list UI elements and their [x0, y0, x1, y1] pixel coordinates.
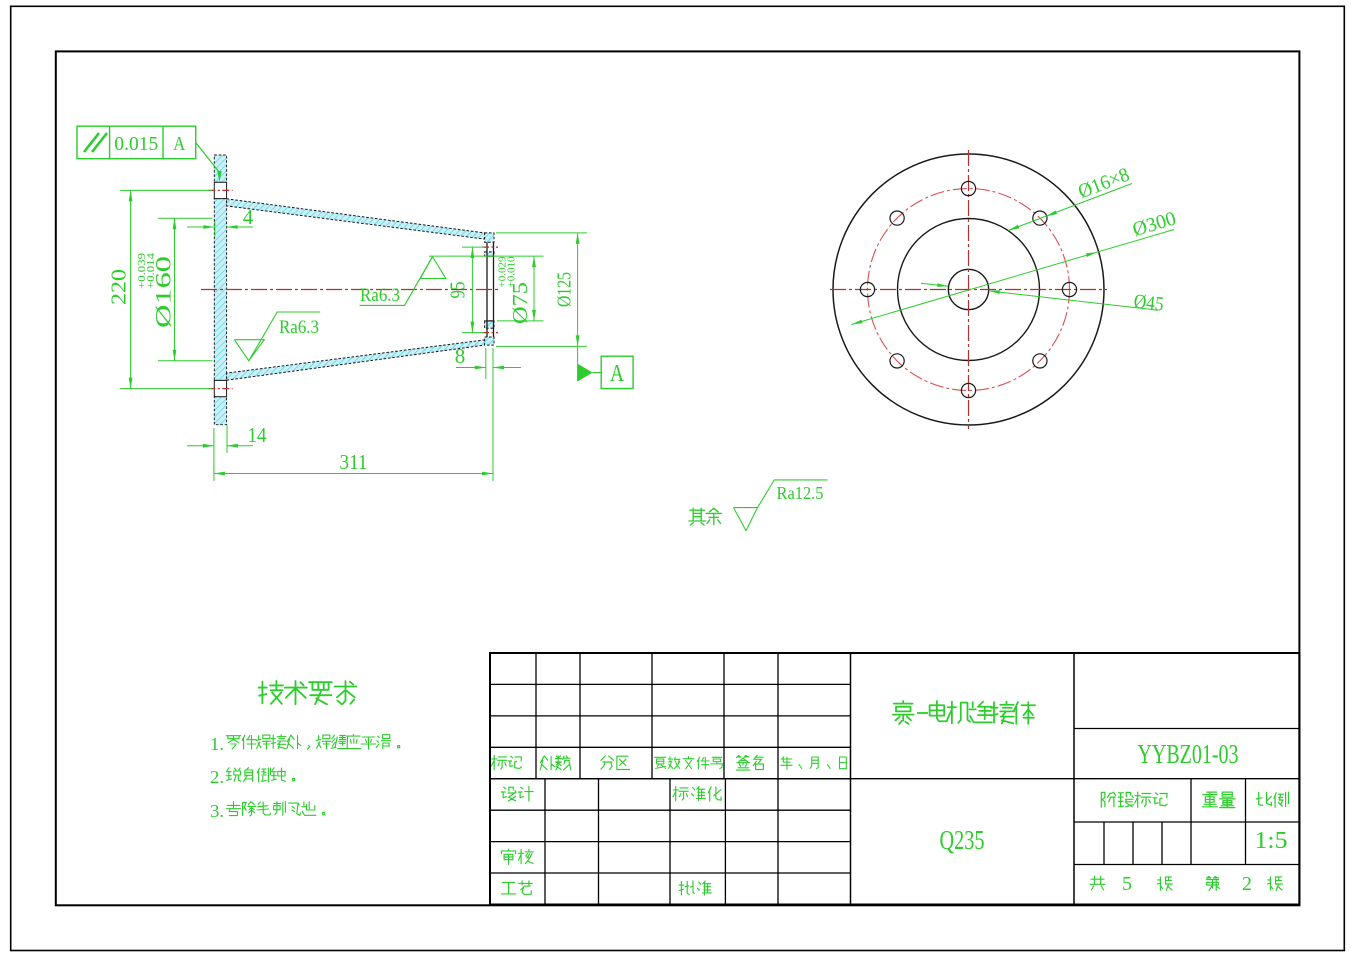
- svg-text:1.: 1.: [210, 734, 224, 754]
- technical requirements title 技术要求: [259, 681, 283, 704]
- title block vertical lines lower-left (signature rows): [544, 779, 546, 905]
- dim Ø160 extension lines: [158, 217, 213, 219]
- svg-text:A: A: [173, 133, 185, 155]
- title block label 处数: [540, 756, 554, 770]
- dim 95 extension lines: [462, 246, 484, 248]
- surface finish Ra6.3 (cone outer surface): [249, 312, 320, 361]
- title block label 签名: [737, 756, 750, 771]
- title block vertical line middle column: [850, 653, 852, 905]
- left view centerline axis: [201, 289, 500, 291]
- front view outer circle Ø300: [833, 154, 1104, 425]
- title block label 批准: [679, 881, 694, 895]
- svg-text:Ø125: Ø125: [554, 272, 576, 307]
- flange bolt hole (bottom, section): [214, 380, 226, 396]
- title block vertical lines upper-left (revision rows): [535, 653, 537, 779]
- leader Ø16×8: [1008, 184, 1132, 231]
- note 其余 Ra12.5 (general roughness): [689, 508, 706, 525]
- title block label 年、月、日: [781, 757, 792, 769]
- bolt circle Ø220 centerline: [868, 189, 1070, 391]
- svg-text:+0.010: +0.010: [507, 257, 518, 288]
- svg-text:220: 220: [107, 269, 131, 305]
- leader Ø45: [921, 283, 948, 286]
- svg-text:A: A: [610, 361, 625, 387]
- svg-text:Q235: Q235: [940, 825, 985, 855]
- 8 bolt holes Ø16: [1062, 282, 1076, 296]
- title block label 更改文件号: [654, 757, 665, 768]
- datum A triangle: [578, 364, 593, 382]
- dim 311 line and arrows: [214, 473, 493, 475]
- label 阶段标记: [1101, 792, 1115, 807]
- cone shell top (section): [227, 199, 487, 240]
- svg-text:+0.014: +0.014: [146, 253, 157, 289]
- dim 220 extension lines: [120, 189, 212, 191]
- svg-text:2.: 2.: [210, 767, 224, 787]
- surface finish Ra6.3 (bore, inverted symbol): [360, 257, 433, 306]
- title block right column lines: [1074, 728, 1299, 730]
- title block outer frame: [490, 653, 1299, 905]
- sheet number 第 2 张: [1207, 877, 1220, 891]
- label 重量: [1203, 792, 1218, 807]
- svg-text:0.015: 0.015: [114, 133, 158, 155]
- title block label 分区: [601, 756, 614, 770]
- dim 95 line and arrows: [471, 247, 473, 333]
- dim Ø125 extension lines: [496, 232, 587, 234]
- svg-text:Ra12.5: Ra12.5: [777, 483, 824, 503]
- sheet count 共 5 张: [1090, 877, 1105, 890]
- title block label 标记: [492, 756, 507, 770]
- svg-text:5: 5: [1122, 873, 1132, 895]
- svg-text:YYBZ01-03: YYBZ01-03: [1138, 739, 1239, 769]
- parallelism feature control frame: [77, 126, 196, 159]
- dim 14 line and arrows: [187, 445, 214, 447]
- flange (big end, section): [214, 155, 226, 182]
- title block label 标准化: [673, 787, 688, 801]
- title block label 审核: [501, 849, 515, 864]
- small flange ring (right end, section): [485, 233, 494, 242]
- leader Ø300: [851, 230, 1174, 325]
- dim 4 (top lip): [214, 222, 216, 237]
- front view centerline vertical: [968, 150, 970, 429]
- svg-text:1:5: 1:5: [1255, 828, 1288, 854]
- datum A box: [601, 356, 633, 388]
- title block label 工艺: [501, 882, 515, 894]
- svg-text:Ra6.3: Ra6.3: [360, 285, 400, 306]
- dim 220 line and arrows: [130, 190, 132, 388]
- part name 泵-电机连接体: [893, 701, 914, 724]
- svg-text:311: 311: [340, 450, 368, 474]
- label 比例: [1256, 792, 1271, 805]
- svg-text:Ø45: Ø45: [1133, 290, 1165, 315]
- title block horizontal lines left section: [490, 683, 851, 685]
- dim 8 line and arrows: [456, 367, 486, 369]
- dim Ø160 line and arrows: [174, 218, 176, 360]
- front view centerline horizontal: [830, 289, 1107, 291]
- svg-text:3.: 3.: [210, 801, 224, 821]
- svg-text:14: 14: [248, 423, 267, 447]
- dim 8 extension lines: [485, 348, 487, 379]
- parallel symbol //: [84, 133, 99, 152]
- ring bolt hole marks (Ø95 positions): [482, 246, 498, 248]
- cone shell bottom (section): [227, 340, 487, 381]
- svg-text:2: 2: [1242, 873, 1252, 895]
- FCF leader arrow: [196, 143, 219, 172]
- dim 14 extension lines: [213, 428, 215, 481]
- dim Ø125 line and arrows: [577, 233, 579, 381]
- svg-text:4: 4: [243, 205, 254, 229]
- front view circle Ø45: [948, 269, 988, 309]
- title block label 设计: [501, 787, 516, 801]
- front view circle Ø160: [898, 219, 1040, 361]
- ring bore Ø75 silhouette lines: [486, 242, 488, 337]
- svg-text:95: 95: [446, 282, 470, 299]
- dim Ø75 extension lines: [429, 255, 544, 257]
- flange bolt hole (top, section): [214, 182, 226, 198]
- svg-text:Ra6.3: Ra6.3: [279, 317, 319, 338]
- svg-text:8: 8: [455, 344, 466, 368]
- dim Ø75 line and arrows: [533, 256, 535, 321]
